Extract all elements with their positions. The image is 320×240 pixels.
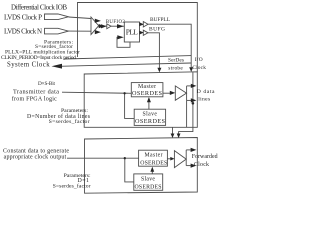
junction dot strobe <box>192 102 195 105</box>
svg-text:OSERDES: OSERDES <box>132 90 163 97</box>
svg-text:Clock: Clock <box>194 162 209 168</box>
IBUFDS triangle <box>91 17 99 35</box>
svg-text:strobe: strobe <box>168 66 183 72</box>
CLKIN period line <box>64 56 191 59</box>
svg-text:OSERDES: OSERDES <box>135 118 166 125</box>
LVDS pad N <box>45 28 69 34</box>
clock-output box <box>85 138 198 194</box>
strobe drop line 2 <box>179 72 193 134</box>
svg-text:D×S-Bit: D×S-Bit <box>38 81 56 87</box>
junction dot constant <box>124 157 126 159</box>
strobe arrow into box2 a <box>171 134 175 139</box>
svg-text:LVDS Clock P: LVDS Clock P <box>4 13 42 21</box>
svg-text:Master: Master <box>145 153 163 159</box>
svg-text:BUFIO2: BUFIO2 <box>106 20 126 25</box>
IBUFDS arrow out <box>99 24 105 28</box>
wire to BUFIO2 <box>99 25 107 27</box>
arrow into PLL feedback <box>117 35 124 39</box>
D data arrow top <box>191 84 197 88</box>
svg-text:PLL: PLL <box>126 28 138 37</box>
arrow into BUFIO2 <box>101 24 107 28</box>
BUFG down arrow <box>157 68 161 73</box>
BUFPLL out wire <box>148 24 191 67</box>
svg-text:OSERDES: OSERDES <box>140 161 167 167</box>
Master OSERDES box 2 <box>139 150 168 166</box>
clock output buffer triangle <box>174 151 186 168</box>
svg-text:SerDes: SerDes <box>168 57 184 63</box>
slave1 to master1 arrow shaft <box>148 102 150 109</box>
constant data wire <box>67 157 139 159</box>
BUFPLL down arrow <box>189 67 193 72</box>
svg-text:appropriate clock output: appropriate clock output <box>4 154 67 160</box>
svg-text:Differential Clock IOB: Differential Clock IOB <box>11 3 67 11</box>
Slave OSERDES box 2 <box>134 174 163 190</box>
PLL out1 wire <box>140 23 144 26</box>
branch wire to Slave1 <box>125 93 135 118</box>
Master OSERDES box 1 <box>131 83 163 97</box>
IBUFDS arrow bottom <box>95 30 101 34</box>
FPGA top box <box>78 3 198 72</box>
wire BUFIO2 to PLL <box>111 25 124 27</box>
svg-text:lines: lines <box>198 96 210 102</box>
arrow into clock buffer <box>170 157 174 161</box>
svg-text:Transmitter data: Transmitter data <box>13 89 59 96</box>
svg-text:BUFG: BUFG <box>149 27 165 33</box>
BUFG triangle <box>143 30 148 35</box>
svg-text:I/O: I/O <box>195 57 203 63</box>
svg-text:BUFPLL: BUFPLL <box>150 17 170 23</box>
OSERDES data box <box>84 72 197 128</box>
svg-text:Slave: Slave <box>143 112 158 118</box>
slave1 to master1 arrowhead <box>147 97 151 102</box>
data wire into Master1 <box>62 92 131 93</box>
System Clock left arrow <box>52 64 63 69</box>
PLL feedback loop <box>117 37 130 47</box>
System Clock wire <box>59 63 191 66</box>
LVDS pad P <box>45 14 69 20</box>
svg-text:Slave: Slave <box>141 176 155 182</box>
BUFG out wire <box>148 33 159 68</box>
arrow into BUFG <box>139 31 143 35</box>
D data arrow bottom <box>191 98 197 102</box>
wire N <box>69 30 92 32</box>
data out split wire <box>186 86 188 101</box>
IBUFDS arrow top <box>95 19 101 23</box>
BUFIO2 triangle <box>107 24 111 29</box>
svg-text:CLKIN_PERIOD=Input clock perio: CLKIN_PERIOD=Input clock period <box>1 55 76 61</box>
clock out split wire <box>185 150 187 166</box>
PLL box <box>124 22 139 42</box>
svg-text:Forwarded: Forwarded <box>192 154 218 160</box>
svg-text:System Clock: System Clock <box>7 62 50 69</box>
svg-text:Clock: Clock <box>192 65 206 71</box>
strobe drop line 1 <box>186 100 188 127</box>
svg-text:LVDS Clock N: LVDS Clock N <box>4 28 42 36</box>
Slave OSERDES box 1 <box>134 109 165 125</box>
arrow into BUFPLL <box>139 22 143 26</box>
wire P <box>69 17 92 19</box>
data output buffer triangle <box>175 86 186 100</box>
svg-text:from FPGA logic: from FPGA logic <box>12 96 57 103</box>
forwarded clock arrow bottom <box>191 164 197 168</box>
master2 out wire <box>167 158 170 160</box>
svg-text:S=serdes_factor: S=serdes_factor <box>53 182 91 189</box>
arrow into PLL clock <box>117 24 124 28</box>
BUFPLL triangle <box>143 22 148 28</box>
PLL out2 wire <box>140 31 144 34</box>
svg-text:S=serdes_factor: S=serdes_factor <box>49 118 90 125</box>
svg-text:D data: D data <box>197 89 215 95</box>
junction dot data <box>123 92 125 94</box>
master1 out wire <box>163 92 170 94</box>
arrow into data buffer <box>170 91 176 95</box>
slave2 to master2 arrowhead <box>150 167 154 172</box>
forwarded clock arrow top <box>191 148 197 152</box>
branch wire to Slave2 <box>125 158 134 182</box>
svg-text:OSERDES: OSERDES <box>135 184 162 190</box>
slave2 to master2 arrow shaft <box>151 169 153 174</box>
strobe arrow into box2 b <box>177 134 181 139</box>
